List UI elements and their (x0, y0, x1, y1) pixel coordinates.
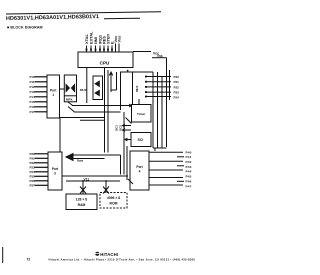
svg-text:P11: P11 (30, 80, 35, 84)
svg-text:P16: P16 (30, 105, 36, 109)
svg-text:ROM: ROM (110, 202, 118, 206)
left rails to bottom bus (120, 155, 122, 175)
bus label (77, 158, 84, 162)
svg-text:Data: Data (77, 158, 84, 162)
svg-text:MUX: MUX (80, 88, 87, 92)
svg-text:P15: P15 (30, 100, 36, 104)
svg-text:Timer: Timer (137, 112, 146, 116)
svg-text:Port: Port (136, 165, 143, 169)
wire up arrow (109, 72, 116, 92)
port2 hash grid verticals (153, 72, 162, 148)
wire port1 to buffer (60, 88, 65, 90)
footer edge mark (2, 247, 4, 263)
bus width label (84, 178, 90, 182)
port1 pin labels (30, 75, 36, 114)
ROM bus bowtie (103, 180, 109, 194)
arrow into timer (127, 104, 132, 107)
Vss label line (157, 54, 163, 58)
port1 pin wires (35, 77, 48, 112)
svg-text:P42: P42 (186, 160, 192, 164)
svg-text:P37: P37 (30, 184, 36, 188)
svg-text:Hitachi America Ltd. • Hitachi: Hitachi America Ltd. • Hitachi Plaza • 2… (49, 258, 196, 262)
svg-text:Vss: Vss (116, 36, 121, 43)
bus wire horizontal a (72, 105, 127, 107)
SC2 wire arrow (123, 129, 132, 132)
svg-text:4: 4 (139, 170, 141, 174)
port3 pin labels (30, 152, 36, 188)
svg-text:Port: Port (52, 167, 59, 171)
bus wire horizontal c (60, 117, 105, 119)
svg-text:3: 3 (54, 172, 56, 176)
address buffer arrows box (93, 76, 103, 100)
SC2 label (119, 125, 123, 131)
svg-text:P12: P12 (30, 85, 36, 89)
svg-text:P46: P46 (186, 179, 192, 183)
pin stubs into CPU (87, 44, 120, 53)
port2 hash grid horizontals (146, 77, 171, 97)
Port 4 block (130, 151, 149, 190)
buffer label (66, 98, 73, 102)
pin label EXTAL (89, 31, 94, 44)
svg-text:HITACHI: HITACHI (100, 252, 118, 257)
svg-text:P40: P40 (186, 150, 192, 154)
RAM bus bowtie (80, 180, 86, 194)
port3 pin wires (35, 154, 49, 186)
title text HD6301V1 family (6, 14, 99, 22)
pin label IRQ1 (98, 34, 103, 44)
bus vertical pair (104, 68, 106, 153)
pin label STBY (106, 33, 111, 44)
section header BLOCK DIAGRAM (7, 25, 43, 29)
svg-text:P43: P43 (186, 165, 192, 169)
pin label E (109, 41, 114, 44)
svg-text:CPU: CPU (100, 60, 110, 65)
RAM block (66, 194, 97, 210)
bus wire horizontal b (74, 111, 121, 113)
svg-text:P34: P34 (30, 170, 36, 174)
mux label port2 (135, 86, 139, 92)
Timer block (132, 105, 152, 123)
svg-text:P14: P14 (30, 95, 36, 99)
port2 arrow ticks (145, 76, 147, 98)
bus arrow into port3 (66, 154, 73, 161)
arrow to port4 lower (128, 179, 133, 184)
svg-text:P41: P41 (186, 155, 192, 159)
title trailing rule (104, 17, 140, 20)
svg-text:P30: P30 (30, 152, 36, 156)
svg-text:SCI: SCI (138, 138, 144, 142)
wire vertical right rail (166, 58, 168, 147)
port4 pin labels (186, 150, 192, 188)
wire down left to port3 (59, 118, 61, 153)
svg-text:1: 1 (52, 93, 54, 97)
pin label XTAL (84, 34, 89, 44)
footer address microtext (49, 258, 196, 262)
header rule (6, 12, 161, 14)
svg-text:MUX: MUX (135, 86, 139, 92)
wire stub below CPU 2 (116, 72, 118, 90)
bottom bus wire pair (62, 175, 128, 177)
svg-text:P10: P10 (30, 75, 36, 79)
bus arrow into mux (68, 107, 75, 113)
wire stub between buffers (86, 68, 88, 104)
wire left rail down to timer (120, 72, 122, 110)
svg-text:P22: P22 (174, 85, 180, 89)
wire CPU to top right (133, 51, 151, 53)
ROM block dashed (100, 193, 127, 209)
svg-text:P36: P36 (30, 179, 36, 183)
svg-text:P23: P23 (174, 91, 180, 95)
svg-text:V11: V11 (84, 178, 90, 182)
Vcc label top right (153, 51, 159, 55)
Port 3 block (48, 152, 62, 190)
pin label Vcc (113, 35, 118, 43)
svg-text:P33: P33 (30, 166, 36, 170)
svg-text:P47: P47 (186, 184, 192, 188)
wire diagonal into timer (126, 118, 132, 124)
arrow into SCI (125, 138, 131, 141)
svg-text:P31: P31 (30, 157, 36, 161)
mux label (80, 88, 87, 92)
svg-text:■ BLOCK DIAGRAM: ■ BLOCK DIAGRAM (7, 25, 43, 29)
junction dot (127, 70, 129, 72)
port4 stub dashes (177, 157, 184, 182)
svg-text:P45: P45 (186, 175, 192, 179)
svg-text:Port: Port (50, 89, 57, 93)
svg-text:P21: P21 (174, 80, 180, 84)
svg-text:MPX: MPX (66, 98, 73, 102)
wire port3 to bottom bus (61, 163, 63, 181)
svg-text:128 × 8: 128 × 8 (76, 198, 88, 202)
svg-text:P24: P24 (174, 95, 180, 99)
svg-text:P35: P35 (30, 175, 36, 179)
lower bus wire pair (73, 154, 121, 156)
wire rails into port4 top (153, 147, 167, 149)
data buffer bowtie box (64, 75, 76, 102)
SC1 wire arrow (123, 124, 132, 127)
svg-text:P17: P17 (30, 110, 36, 114)
SCI block (131, 133, 151, 147)
hitachi logo (95, 252, 118, 257)
bus corner wire (80, 119, 105, 121)
svg-text:P44: P44 (186, 170, 192, 174)
wire timer top links (132, 72, 134, 105)
svg-text:P20: P20 (174, 75, 180, 79)
wire cpu to port2 (120, 71, 153, 73)
Port 1 block (47, 75, 60, 118)
page number (27, 257, 31, 261)
pin label NMI (93, 37, 98, 44)
port2 pin labels (174, 75, 180, 99)
svg-text:RAM: RAM (78, 203, 86, 207)
pin label RES (102, 36, 107, 44)
port4 pin wires (149, 152, 183, 185)
pin arrow dots (86, 49, 113, 51)
svg-text:P13: P13 (30, 90, 36, 94)
svg-text:72: 72 (27, 257, 31, 261)
svg-text:4096 × 8: 4096 × 8 (107, 196, 120, 200)
SC1 label (115, 125, 119, 131)
CPU block (78, 52, 133, 68)
svg-text:P32: P32 (30, 161, 36, 165)
pin label Vss (116, 36, 121, 43)
